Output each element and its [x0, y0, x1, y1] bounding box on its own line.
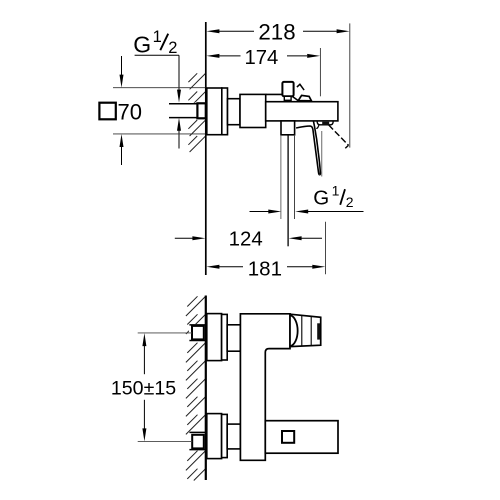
shower outlet nipple: [281, 121, 295, 135]
lever blade left edge: [296, 126, 320, 175]
svg-text:2: 2: [346, 194, 354, 210]
lever knob: [282, 82, 293, 96]
phantom lever dashed: [329, 125, 349, 145]
blank for upper union pipe: [189, 324, 206, 341]
body block (top view): [266, 102, 338, 121]
s-union connector: [228, 99, 241, 125]
spout line 1: [301, 315, 303, 346]
spout arc: [291, 315, 298, 346]
lever axis line: [321, 131, 323, 177]
lower union center line: [138, 441, 193, 443]
platform line on top: [266, 93, 283, 95]
phantom knob dashes: [297, 84, 304, 90]
svg-text:174: 174: [244, 47, 278, 69]
svg-text:1: 1: [332, 183, 340, 199]
dimension 218: [219, 30, 254, 32]
spout line 2: [310, 316, 312, 345]
escutcheon lower lip: [222, 414, 228, 457]
svg-text:150±15: 150±15: [111, 377, 176, 399]
spout outlet trough: [317, 121, 333, 125]
svg-text:70: 70: [118, 100, 142, 125]
svg-text:2: 2: [168, 39, 177, 57]
spout (lower view): [290, 314, 321, 346]
wall line (top view): [205, 22, 207, 275]
pipe wall block: [197, 103, 205, 118]
lower union nut: [192, 435, 204, 449]
square-70 label: [99, 103, 115, 120]
extension line right of 218: [349, 23, 351, 147]
blank for supply pipe: [168, 103, 205, 119]
extension line right of 174: [319, 48, 321, 96]
dimension 124: [175, 237, 194, 239]
escutcheon (top view): [207, 88, 222, 135]
supply pipe walls: [169, 103, 198, 105]
outlet dark insert: [322, 122, 329, 125]
escutcheon lower (lower view): [207, 414, 222, 459]
svg-text:G: G: [313, 187, 329, 210]
knob neck: [284, 96, 291, 100]
escutcheon upper (lower view): [207, 314, 222, 361]
70 dim arrows: [121, 56, 123, 75]
neck diagonal: [292, 96, 298, 100]
valve housing: [240, 94, 266, 127]
handle box (lower view): [265, 421, 338, 454]
handle square detail: [282, 431, 294, 443]
svg-text:G: G: [133, 32, 151, 58]
lower union pipe walls: [189, 431, 205, 433]
svg-text:1: 1: [153, 28, 162, 46]
outlet center line: [287, 135, 289, 246]
70 extension lines: [113, 87, 205, 89]
svg-text:124: 124: [229, 229, 263, 251]
nipple right extension line: [294, 135, 296, 219]
wall hatching (top view): [190, 74, 206, 90]
escutcheon lip: [222, 88, 228, 135]
wall line (lower view): [205, 296, 207, 481]
upper union center line: [138, 332, 192, 334]
svg-text:218: 218: [258, 20, 295, 45]
lever blade right edge: [313, 121, 320, 175]
wall hatching (lower view): [186, 297, 206, 317]
blank for lower union pipe: [189, 432, 206, 451]
dimension 150 +/- 15: [143, 346, 145, 374]
outlet hook: [316, 125, 319, 128]
extension line right of 181: [325, 222, 327, 274]
upper union nut: [192, 326, 204, 340]
nipple left extension line: [280, 135, 282, 219]
connector upper: [227, 325, 240, 351]
dimension 181: [219, 266, 243, 268]
spout slot: [317, 323, 320, 339]
upper union pipe walls: [189, 324, 205, 326]
dimension 174: [219, 55, 240, 57]
leader for G 1/2 top: [135, 54, 179, 56]
escutcheon upper lip: [222, 314, 228, 360]
connector lower: [227, 424, 240, 449]
faucet body column (lower view): [240, 314, 290, 461]
wedge on body: [298, 95, 311, 100]
svg-text:181: 181: [248, 257, 282, 280]
